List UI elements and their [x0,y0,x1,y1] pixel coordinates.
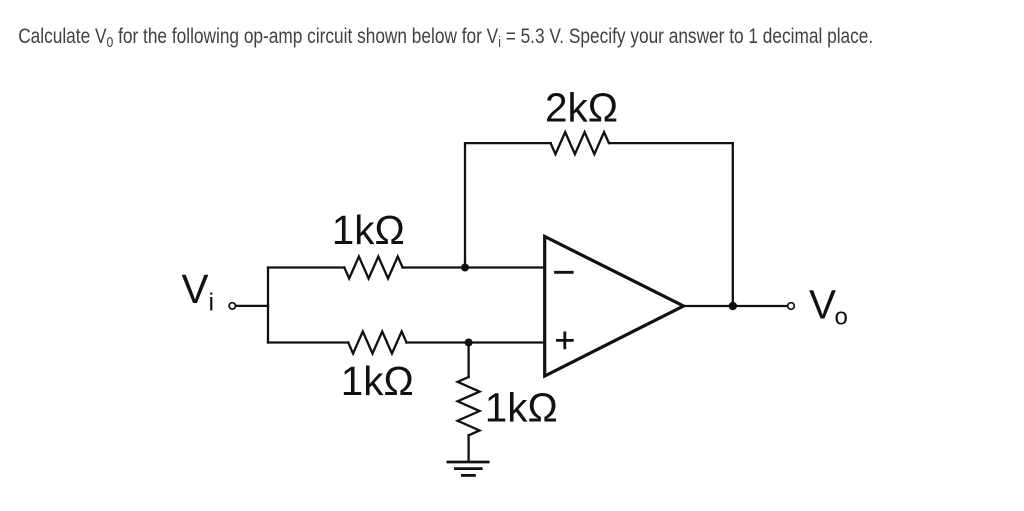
svg-text:Vi: Vi [182,266,215,317]
resistor R4 1k vertical zigzag [458,377,480,435]
svg-text:2kΩ: 2kΩ [545,84,618,130]
op-amp U1 triangle [545,237,684,377]
resistor R1 1k top zigzag [344,257,402,279]
wire top branch left [268,266,344,268]
wire Vi stub [236,305,268,307]
op-amp minus sign [554,271,574,274]
svg-text:1kΩ: 1kΩ [341,358,414,404]
node Vi terminal circle [229,303,235,309]
svg-text:1kΩ: 1kΩ [332,207,405,253]
resistor R2 1k bottom zigzag [348,332,406,354]
svg-text:Vo: Vo [809,282,848,331]
wire output [684,305,788,307]
resistor R3 2k zigzag [551,132,609,154]
wire feedback across and down [609,143,733,306]
wire bottom branch right to op-amp [407,341,545,343]
svg-text:Calculate V0 for the following: Calculate V0 for the following op-amp ci… [18,24,873,51]
wire down from plus node [467,343,469,378]
wire top branch right to op-amp [403,266,545,268]
wire bottom branch left [268,341,348,343]
ground [447,461,490,464]
node inverting input junction dot [461,264,469,272]
node Vo terminal circle [788,303,795,310]
wire to ground [467,435,469,461]
node noninverting input junction dot [465,339,473,347]
svg-text:1kΩ: 1kΩ [485,384,558,430]
node output junction dot [729,302,737,310]
wire feedback up [465,143,551,267]
wire left vertical split [267,268,269,343]
op-amp plus sign [556,332,574,350]
